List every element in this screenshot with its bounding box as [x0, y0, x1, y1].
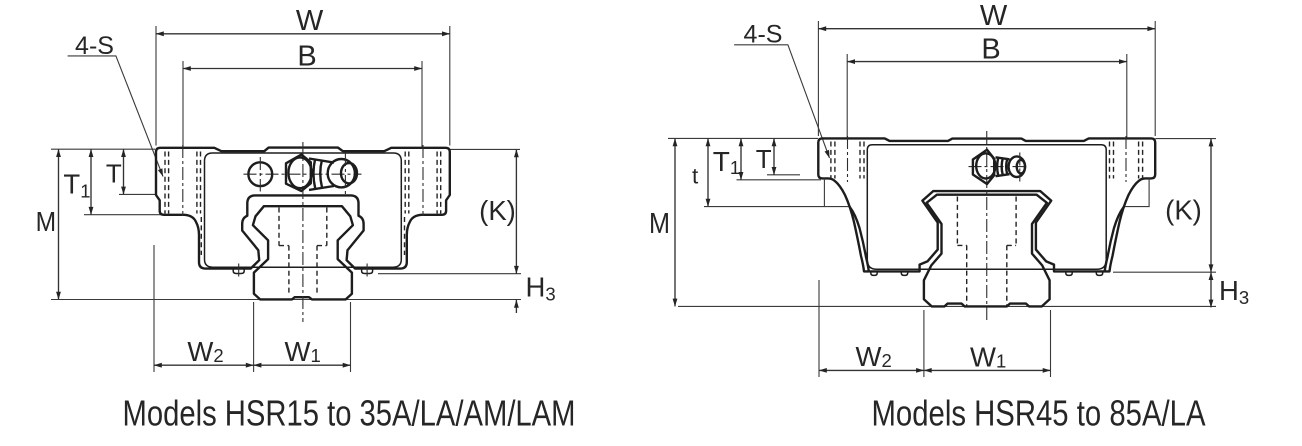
svg-text:Models HSR15 to 35A/LA/AM/LAM: Models HSR15 to 35A/LA/AM/LAM [123, 393, 576, 434]
svg-text:T: T [756, 144, 772, 174]
wire: top reference line left (block top extended) [668, 137, 818, 139]
right ear tapped hole dashed lines [405, 152, 441, 214]
wire: t reference line [704, 206, 824, 208]
svg-text:H3: H3 [526, 272, 556, 305]
rail outline [253, 206, 353, 299]
block outline (carriage with flanges and cavity) [818, 138, 1155, 271]
grease nipple tip inner ellipse [341, 163, 357, 183]
svg-text:W2: W2 [187, 336, 223, 367]
svg-text:4-S: 4-S [744, 20, 783, 48]
hole circle vertical center line [259, 157, 261, 192]
nipple tip vertical center line [344, 153, 346, 196]
svg-text:T1: T1 [713, 146, 740, 178]
grease nipple hex body [973, 150, 994, 184]
wire: T reference line [767, 174, 800, 176]
grease nipple thread section [996, 157, 1010, 176]
wire: T1 reference line [737, 179, 822, 181]
svg-text:(K): (K) [479, 195, 516, 226]
svg-text:W1: W1 [285, 336, 321, 367]
dimension W [156, 33, 450, 35]
dimension (K) [1210, 139, 1212, 273]
dimension T [773, 138, 775, 174]
wire: block bottom reference line for H3 [378, 273, 521, 275]
grease nipple tip outer ellipse [1009, 156, 1025, 177]
dimension W extension lines [818, 21, 1155, 136]
grease nipple tip inner ellipse [1017, 160, 1025, 174]
svg-text:t: t [692, 164, 699, 189]
wire: top reference line right for (K) [450, 148, 520, 150]
dimension W2 [154, 364, 254, 366]
dimension H3 outside arrow [515, 300, 517, 313]
dimension M [58, 149, 60, 299]
rail bolt through-hole hidden lines [967, 245, 1007, 305]
right ear tapped hole dashed lines [1110, 142, 1143, 179]
wire: block bottom reference line for H3 [1113, 271, 1216, 273]
dimension W1 [254, 364, 351, 366]
tab center lines [239, 264, 367, 278]
dimension W extension lines [156, 26, 450, 146]
dimension T1 [740, 138, 742, 179]
flange seam curve right [1125, 178, 1149, 206]
block outline (carriage with flanges and cavity) [156, 148, 450, 269]
wire: bottom reference line (rail bottom extended) [51, 299, 521, 301]
svg-text:T: T [106, 159, 122, 189]
body / end-seal seam line [205, 153, 402, 267]
right mounting tab [362, 269, 373, 274]
svg-text:T1: T1 [63, 169, 90, 202]
svg-text:B: B [981, 34, 1000, 66]
svg-text:H3: H3 [1219, 275, 1249, 308]
dimension B [847, 61, 1127, 63]
svg-text:M: M [649, 208, 670, 240]
rail bolt counterbore hidden lines [279, 208, 327, 246]
wire: T1 reference line [84, 214, 162, 216]
side hole circle [248, 162, 272, 186]
dimension W2 [819, 369, 924, 371]
flange seam curve left [824, 178, 848, 206]
wire: bottom reference line (rail bottom extended) [678, 305, 1216, 307]
nipple horizontal center line [969, 166, 1029, 168]
dimension t [707, 138, 709, 206]
nipple tip vertical center line [1019, 153, 1021, 182]
rail bolt through-hole hidden lines [289, 246, 317, 296]
svg-text:W2: W2 [856, 341, 892, 372]
dimension B extension lines [847, 54, 1127, 138]
horizontal center line through hole and nipple [244, 173, 362, 175]
svg-text:Models HSR45 to 85A/LA: Models HSR45 to 85A/LA [872, 393, 1206, 434]
left ear tapped hole dashed lines (4-S) [165, 152, 201, 214]
dimension B [183, 68, 422, 70]
ear hole center lines [848, 136, 1127, 182]
main vertical center line [986, 131, 988, 322]
grease nipple tip outer ellipse [328, 159, 355, 187]
wire: T reference line [119, 193, 156, 195]
dimension W [818, 28, 1155, 30]
dimension M [674, 138, 676, 306]
hidden edges under ears [201, 217, 404, 255]
wire: top reference line left (block top extended) [51, 148, 155, 150]
rail bolt counterbore hidden lines [957, 197, 1016, 246]
wire: top reference line right for (K) [1155, 138, 1216, 140]
grease nipple thread section [309, 159, 334, 190]
grease nipple ball dome [288, 157, 311, 188]
dimension T [123, 149, 125, 194]
dimension W2 W1 extension lines [154, 245, 351, 372]
dimension T1 [90, 149, 92, 215]
svg-text:W: W [296, 5, 324, 37]
body / end-seal seam line [867, 145, 1106, 270]
dimension (K) [515, 149, 517, 273]
grease nipple hex body [286, 155, 311, 191]
dimension H3 [1210, 272, 1212, 307]
left mounting tab [233, 269, 244, 274]
svg-text:W: W [980, 0, 1008, 32]
svg-text:B: B [297, 41, 316, 73]
left ear tapped hole dashed lines (4-S) [831, 142, 864, 179]
svg-text:(K): (K) [1165, 195, 1202, 226]
dimension W2 W1 extension lines [819, 280, 1051, 377]
rail outline [924, 195, 1050, 307]
svg-text:W1: W1 [970, 342, 1006, 373]
grease nipple ball dome [976, 153, 995, 178]
ear hole center lines [183, 145, 423, 216]
dimension B extension lines [183, 61, 422, 148]
main vertical center line [302, 142, 304, 322]
mounting tabs under legs [871, 271, 877, 275]
dimension W1 [924, 369, 1051, 371]
svg-text:M: M [36, 206, 57, 237]
